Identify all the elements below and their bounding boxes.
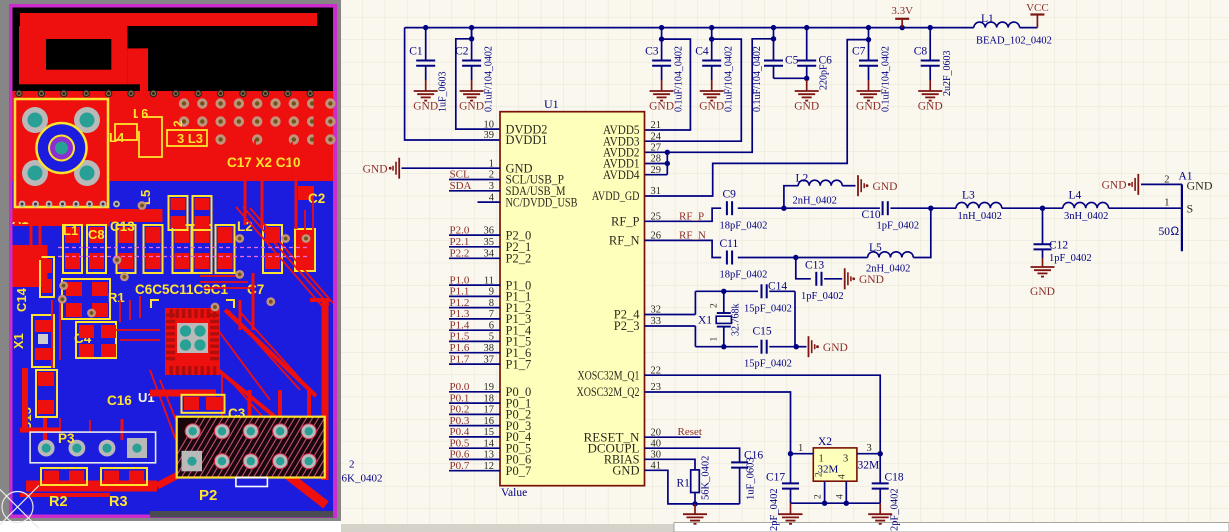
- capacitor C13: [796, 258, 811, 279]
- svg-text:P1.3: P1.3: [450, 308, 470, 320]
- wire C4 to pin24: [709, 36, 714, 41]
- svg-text:X1: X1: [698, 314, 712, 326]
- crystal X2: [813, 448, 857, 481]
- svg-text:Value: Value: [501, 487, 527, 499]
- wire X2 pin2: [824, 481, 826, 503]
- svg-text:RF_N: RF_N: [679, 229, 706, 241]
- svg-text:P0_7: P0_7: [506, 464, 532, 478]
- svg-text:R3: R3: [109, 494, 128, 510]
- svg-text:GND: GND: [413, 101, 438, 113]
- svg-text:GND: GND: [649, 101, 674, 113]
- C15 component: [36, 370, 57, 417]
- svg-text:XOSC32M_Q1: XOSC32M_Q1: [578, 368, 640, 382]
- svg-text:C2: C2: [455, 46, 469, 58]
- inductor L1: [974, 22, 1020, 27]
- L3 pads: [168, 131, 206, 145]
- wire C10 to L3: [890, 207, 956, 209]
- svg-text:15pF_0402: 15pF_0402: [744, 359, 792, 370]
- connector P2: [162, 412, 376, 480]
- svg-text:27: 27: [651, 143, 662, 154]
- svg-text:220pF: 220pF: [819, 64, 830, 90]
- inductor L3: [956, 202, 1002, 208]
- power VCC: [1036, 15, 1038, 28]
- svg-text:2: 2: [1164, 174, 1169, 185]
- via grid top right: [179, 98, 189, 108]
- sheet background: [341, 0, 1229, 532]
- svg-text:2: 2: [171, 120, 185, 127]
- capacitor C11: [726, 251, 728, 265]
- svg-text:C6C5C11C9C1: C6C5C11C9C1: [135, 282, 229, 297]
- svg-text:L4: L4: [109, 130, 125, 145]
- X1 component left: [32, 315, 54, 367]
- wire C11 to L5: [738, 257, 868, 259]
- svg-text:GND: GND: [363, 163, 388, 175]
- wire DCOUPL: [644, 448, 739, 462]
- wire 3.3V rail: [405, 27, 974, 29]
- svg-text:2nH_0402: 2nH_0402: [866, 264, 910, 275]
- svg-text:1: 1: [710, 337, 720, 342]
- svg-text:P1.1: P1.1: [450, 286, 470, 298]
- svg-text:3: 3: [867, 443, 872, 454]
- capacitor C14: [761, 284, 763, 298]
- svg-text:AVDD4: AVDD4: [603, 168, 640, 182]
- ground X2 left: [790, 503, 792, 514]
- svg-text:P3: P3: [58, 431, 75, 446]
- svg-text:3: 3: [843, 454, 848, 465]
- svg-text:C13: C13: [110, 219, 135, 234]
- svg-text:1pF_0402: 1pF_0402: [1049, 253, 1092, 264]
- C3 pads: [182, 395, 225, 413]
- wire pin stubs left: [449, 179, 501, 181]
- capacitor C5: [771, 25, 776, 30]
- pcb black background: [13, 8, 334, 515]
- wire X2 pin3: [878, 451, 883, 456]
- svg-text:GND: GND: [859, 274, 884, 286]
- svg-text:C8: C8: [88, 227, 105, 242]
- svg-text:C7: C7: [852, 46, 866, 58]
- svg-text:P1.6: P1.6: [450, 342, 470, 354]
- capacitor C12: [1042, 208, 1044, 244]
- keypad component A1: [13, 97, 110, 226]
- svg-text:15pF_0402: 15pF_0402: [744, 304, 792, 315]
- svg-text:10: 10: [484, 119, 495, 130]
- capacitor C10: [882, 201, 884, 215]
- wire C7 to pin31: [866, 37, 871, 42]
- scattered vias: [120, 273, 129, 282]
- power GND flag pin1: [398, 158, 400, 179]
- svg-text:X2: X2: [818, 436, 832, 448]
- svg-text:C5: C5: [785, 55, 799, 67]
- svg-text:P2.1: P2.1: [450, 236, 470, 248]
- svg-text:S: S: [1187, 201, 1194, 215]
- origin marker: [0, 486, 39, 529]
- wire X2 bottom: [791, 502, 881, 504]
- wire X2 pin1: [788, 451, 793, 456]
- svg-text:VCC: VCC: [1026, 2, 1049, 14]
- svg-text:L1: L1: [63, 223, 78, 238]
- svg-text:NC/DVDD_USB: NC/DVDD_USB: [506, 195, 578, 209]
- svg-text:GND: GND: [1030, 286, 1055, 298]
- svg-text:1pF_0402: 1pF_0402: [801, 291, 844, 302]
- svg-text:R2: R2: [49, 494, 68, 510]
- svg-text:C11: C11: [720, 238, 739, 250]
- inductor L2: [784, 186, 798, 209]
- svg-text:1uF_0603: 1uF_0603: [438, 71, 449, 112]
- svg-text:C1: C1: [409, 46, 423, 58]
- svg-text:L1: L1: [981, 13, 994, 25]
- svg-text:0.1uF/104_0402: 0.1uF/104_0402: [674, 46, 685, 112]
- svg-text:3 L3: 3 L3: [177, 131, 203, 146]
- resistor R2: [41, 468, 87, 485]
- capacitor C15: [761, 340, 763, 354]
- svg-text:P0.4: P0.4: [450, 426, 470, 438]
- wire GND pin41: [644, 470, 739, 504]
- ground X2 right: [879, 503, 881, 514]
- svg-text:GND: GND: [918, 101, 943, 113]
- wire C9 to C10: [738, 207, 880, 209]
- svg-text:C10: C10: [862, 209, 881, 221]
- svg-text:P0.6: P0.6: [450, 449, 470, 461]
- svg-text:32M: 32M: [858, 460, 880, 472]
- svg-text:0.1uF/104_0402: 0.1uF/104_0402: [881, 46, 892, 112]
- svg-text:6K_0402: 6K_0402: [342, 473, 383, 485]
- svg-text:C14: C14: [768, 281, 787, 293]
- svg-text:C17 X2 C10: C17 X2 C10: [227, 155, 301, 170]
- keypad lower dots: [19, 201, 26, 208]
- svg-text:GND: GND: [794, 101, 819, 113]
- wire pin22 to X2 pin3: [644, 375, 880, 454]
- svg-text:GND: GND: [873, 181, 898, 193]
- via fence dots: [16, 90, 22, 96]
- wire RF_N: [644, 240, 721, 257]
- P2 white box: [236, 478, 268, 487]
- svg-text:RF_P: RF_P: [611, 215, 640, 229]
- svg-text:1: 1: [798, 443, 803, 454]
- power GND flag X1: [808, 336, 810, 357]
- svg-text:2: 2: [814, 494, 824, 499]
- bottom dark strip: [150, 511, 333, 518]
- wire X2 pin4: [845, 481, 847, 503]
- antenna notch: [46, 39, 111, 70]
- svg-text:BEAD_102_0402: BEAD_102_0402: [976, 36, 1052, 47]
- svg-text:32.768k: 32.768k: [731, 304, 742, 337]
- window grey frame: [0, 0, 341, 532]
- wire pin32 to X1 top: [644, 314, 695, 316]
- svg-text:18pF_0402: 18pF_0402: [720, 270, 768, 281]
- svg-text:RF_N: RF_N: [609, 234, 640, 248]
- svg-text:L5: L5: [869, 242, 882, 254]
- svg-text:1: 1: [1164, 197, 1169, 208]
- svg-text:C4: C4: [695, 46, 709, 58]
- svg-text:31: 31: [651, 186, 662, 197]
- R1 block: [62, 279, 110, 319]
- svg-text:P2.0: P2.0: [450, 224, 470, 236]
- svg-text:C15: C15: [753, 326, 772, 338]
- inductor L5: [868, 252, 914, 258]
- capacitor C16: [731, 461, 748, 463]
- svg-text:L3: L3: [962, 190, 975, 202]
- scrollbar strip: [341, 524, 1229, 532]
- wire C2 to pin10: [469, 36, 474, 41]
- svg-text:0.1uF/104_0402: 0.1uF/104_0402: [724, 46, 735, 112]
- svg-text:C2: C2: [308, 191, 325, 206]
- antenna trace red: [20, 13, 317, 26]
- svg-text:28: 28: [651, 154, 662, 165]
- svg-text:XOSC32M_Q2: XOSC32M_Q2: [577, 385, 640, 399]
- svg-text:C18: C18: [885, 471, 904, 483]
- svg-text:P2_2: P2_2: [506, 252, 532, 266]
- svg-text:P1.2: P1.2: [450, 297, 470, 309]
- connector P3: [30, 432, 156, 463]
- svg-text:2: 2: [710, 303, 720, 308]
- svg-text:C3: C3: [645, 46, 659, 58]
- svg-text:GND: GND: [612, 464, 639, 478]
- svg-text:3nH_0402: 3nH_0402: [1064, 211, 1108, 222]
- capacitor C2: [469, 25, 474, 30]
- svg-text:C17: C17: [766, 471, 785, 483]
- svg-text:2u2F_0603: 2u2F_0603: [942, 50, 953, 96]
- svg-text:GND: GND: [1102, 180, 1127, 192]
- svg-text:U1: U1: [544, 97, 559, 111]
- svg-text:39: 39: [484, 130, 495, 141]
- svg-text:2: 2: [815, 472, 825, 477]
- svg-text:C9: C9: [723, 189, 737, 201]
- wire C14 C15 join: [794, 291, 796, 346]
- net label Reset: [644, 436, 700, 438]
- svg-text:C14: C14: [14, 287, 29, 312]
- svg-text:P0.2: P0.2: [450, 404, 470, 416]
- red band left: [13, 209, 163, 222]
- L6 component: [140, 118, 161, 156]
- resistor R3: [101, 468, 147, 485]
- chip U1: [165, 308, 220, 375]
- svg-text:X1: X1: [11, 333, 26, 349]
- svg-text:P0.0: P0.0: [450, 381, 470, 393]
- svg-text:0.1uF/104_0402: 0.1uF/104_0402: [484, 46, 495, 112]
- svg-text:C12: C12: [1049, 239, 1068, 251]
- crystal X1: [721, 289, 726, 294]
- dashed outline lines: [58, 247, 308, 249]
- capacitor C18: [879, 454, 881, 484]
- capacitor C9: [726, 201, 728, 215]
- svg-text:4: 4: [838, 474, 848, 479]
- svg-text:1pF_0402: 1pF_0402: [877, 221, 920, 232]
- svg-text:29: 29: [651, 165, 662, 176]
- svg-text:L2: L2: [796, 173, 809, 185]
- svg-text:GND: GND: [823, 342, 848, 354]
- board red top field: [13, 91, 334, 181]
- svg-text:P0.3: P0.3: [450, 415, 470, 427]
- wire RF_P: [644, 208, 721, 221]
- svg-text:50: 50: [1159, 226, 1171, 238]
- L4 pads: [116, 125, 136, 139]
- svg-text:SDA: SDA: [450, 180, 472, 192]
- svg-text:P1_7: P1_7: [506, 357, 532, 371]
- thin traces: [236, 207, 322, 306]
- svg-text:0.1uF/104_0402: 0.1uF/104_0402: [752, 46, 763, 112]
- C4 block: [76, 322, 116, 358]
- svg-text:3.3V: 3.3V: [891, 5, 913, 17]
- ground R1: [694, 504, 696, 514]
- capacitor C8: [928, 25, 933, 30]
- antenna feed trace: [127, 48, 148, 84]
- upper passives near L5: [169, 196, 188, 230]
- svg-text:C13: C13: [805, 259, 824, 271]
- svg-text:P2: P2: [199, 487, 217, 504]
- svg-text:2: 2: [349, 459, 355, 471]
- capacitor C17: [790, 454, 792, 484]
- power 3.3V: [900, 25, 905, 30]
- svg-text:Ω: Ω: [1171, 226, 1180, 238]
- svg-text:P1.4: P1.4: [450, 319, 470, 331]
- wire C5 to pins 27 28 29: [771, 36, 776, 41]
- svg-text:P0.5: P0.5: [450, 437, 470, 449]
- inductor L4: [1063, 202, 1109, 208]
- svg-text:DVDD1: DVDD1: [506, 133, 548, 147]
- pcb border magenta: [9, 4, 337, 518]
- svg-text:P0.7: P0.7: [450, 460, 470, 472]
- svg-text:56K_0402: 56K_0402: [701, 456, 712, 500]
- connector A1: [1181, 184, 1183, 251]
- wire C3 to pin21: [659, 36, 664, 41]
- C2 pads right: [296, 230, 314, 270]
- power GND flag C13: [844, 268, 846, 289]
- svg-text:P2.2: P2.2: [450, 248, 470, 260]
- svg-text:C7: C7: [247, 282, 264, 297]
- resistor R1: [691, 470, 700, 493]
- svg-text:1nH_0402: 1nH_0402: [958, 211, 1002, 222]
- svg-text:C8: C8: [914, 46, 928, 58]
- passive components row: [63, 225, 82, 273]
- svg-text:P2_3: P2_3: [614, 319, 640, 333]
- capacitor C7: [866, 25, 871, 30]
- svg-text:RF_P: RF_P: [679, 210, 704, 222]
- svg-text:2pF_0402: 2pF_0402: [890, 488, 901, 531]
- wire C5 C6 join: [774, 77, 807, 79]
- red traces: [138, 95, 142, 131]
- antenna black region: [13, 8, 334, 92]
- wire RBIAS to R1: [644, 459, 695, 470]
- svg-text:R1: R1: [677, 477, 691, 489]
- svg-text:L4: L4: [1069, 190, 1082, 202]
- svg-text:18pF_0402: 18pF_0402: [720, 221, 768, 232]
- svg-text:P1.5: P1.5: [450, 331, 470, 343]
- svg-text:21: 21: [651, 120, 662, 131]
- svg-text:AVDD_GD: AVDD_GD: [592, 189, 640, 203]
- ic U1: [484, 97, 662, 499]
- svg-text:GND: GND: [459, 101, 484, 113]
- wire pin23 to X2 pin1: [644, 392, 790, 454]
- svg-text:Reset: Reset: [678, 426, 702, 438]
- wire pin33 to X1 bottom: [644, 325, 695, 327]
- svg-text:GND: GND: [1187, 178, 1213, 192]
- svg-text:P0.1: P0.1: [450, 392, 470, 404]
- svg-text:GND: GND: [699, 101, 724, 113]
- svg-text:GND: GND: [856, 101, 881, 113]
- power GND flag A1: [1137, 174, 1139, 195]
- svg-text:1uF_0603: 1uF_0603: [746, 457, 757, 500]
- capacitor C6: [804, 25, 809, 30]
- svg-text:P1.7: P1.7: [450, 353, 470, 365]
- svg-text:2nH_0402: 2nH_0402: [793, 196, 837, 207]
- svg-text:P1.0: P1.0: [450, 274, 470, 286]
- svg-text:SCL: SCL: [450, 169, 470, 181]
- svg-text:C16: C16: [107, 393, 132, 408]
- board blue field: [13, 181, 334, 515]
- svg-text:2pF_0402: 2pF_0402: [769, 488, 780, 531]
- capacitor C4: [709, 25, 714, 30]
- wire DVDD drop: [405, 28, 501, 140]
- C14 component left: [40, 257, 54, 297]
- capacitor C1: [423, 25, 428, 30]
- power GND flag L2: [857, 175, 859, 196]
- svg-text:24: 24: [651, 131, 662, 142]
- svg-text:4: 4: [835, 494, 845, 499]
- capacitor C3: [659, 25, 664, 30]
